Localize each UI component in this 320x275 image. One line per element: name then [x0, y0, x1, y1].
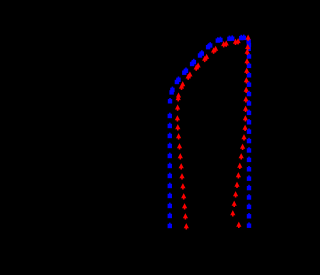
red triangle data series (inner loop)	[175, 35, 251, 230]
blue square data series (outer loop)	[168, 35, 252, 229]
